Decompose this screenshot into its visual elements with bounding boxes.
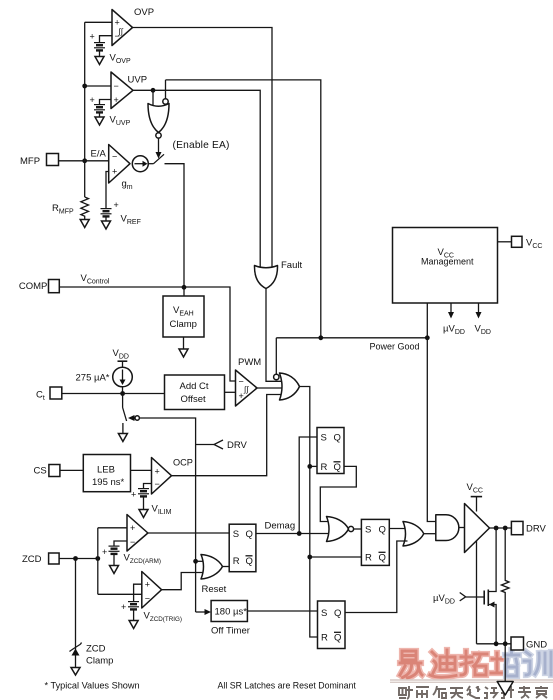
svg-text:+: + (239, 391, 244, 401)
svg-text:+: + (114, 95, 119, 105)
ground arrow below Ct switch (118, 434, 127, 442)
wire: bus to TRIG minus input (98, 593, 142, 595)
svg-text:UVP: UVP (128, 75, 148, 86)
wire: Vcontrol line from COMP to PWM minus input (59, 287, 235, 381)
svg-text:R: R (321, 462, 328, 473)
svg-text:(Enable EA): (Enable EA) (173, 140, 230, 151)
glyph pin (416, 687, 429, 698)
wire: bus to ARM plus input (98, 527, 127, 529)
wire: CS to LEB (60, 469, 83, 471)
svg-text:Fault: Fault (281, 260, 302, 271)
wire: after switch to COMP junction (165, 164, 185, 288)
glyph she (399, 686, 413, 699)
driver buffer triangle (465, 504, 490, 553)
glyph she2 (484, 687, 497, 698)
switch blade: enable EA switch (154, 154, 165, 163)
wire: MFP pin to E/A minus input (59, 160, 109, 162)
resistor RMFP (81, 197, 89, 220)
wire: Fault gate output down to PWM OR gate (266, 289, 284, 382)
node: driver output to mosfet drain (494, 526, 499, 531)
ZCD clamp symbol: up arrow (72, 649, 80, 656)
svg-text:+: + (112, 167, 117, 177)
wire: ZCD pin line (59, 558, 98, 560)
block: VEAH Clamp (163, 296, 204, 337)
svg-text:−: − (114, 81, 119, 91)
node: R input latch1 (307, 464, 312, 469)
glyph tian (450, 688, 463, 698)
ground arrow below VILIM (139, 510, 148, 518)
gate: AND2 driver gate (436, 515, 459, 541)
battery VZCD(ARM) (109, 546, 120, 554)
wire: DRV bus into Reset OR upper input (196, 560, 206, 562)
ZCD clamp: wire down from ZCD node (75, 559, 77, 670)
wire: stub to VEAH clamp (183, 287, 185, 296)
svg-text:PWM: PWM (238, 357, 261, 368)
wire: Reset OR output to latch2 R (223, 566, 230, 568)
wire: UVP output to right then down to Fault gate (133, 90, 260, 268)
svg-text:Management: Management (421, 257, 474, 267)
wire: OVP plus input (85, 21, 112, 23)
wire: OVP output to right then down to Fault gate (133, 28, 273, 269)
wire: Off Timer output to latch4 S (247, 610, 317, 612)
wire: Demag Q output to OR gate (256, 533, 331, 535)
current source: E/A output (132, 156, 148, 172)
svg-text:S: S (321, 608, 327, 619)
watermark rule band (390, 679, 553, 683)
node: rail to VCC management / AND gate line (425, 335, 430, 340)
arrow: uVDD output of VCC management (450, 303, 452, 313)
wire: VILIM to ground (143, 496, 145, 509)
wire: ARM output to latch2 S (148, 532, 229, 534)
ground arrow below ZCD clamp (71, 668, 80, 676)
wire: UVP output down into enable NOR gate (152, 90, 154, 105)
bubble: enable gate inverted input (163, 99, 168, 104)
wire: mosfet drain (488, 528, 496, 592)
svg-text:Reset: Reset (202, 584, 227, 595)
svg-text:OVP: OVP (134, 7, 154, 18)
DRV pin (511, 521, 523, 534)
arrowhead: into Off Timer (205, 609, 212, 615)
svg-text:+: + (90, 32, 95, 42)
ground arrow below VUVP (95, 117, 104, 125)
op-amp UVP comparator (111, 72, 133, 109)
block: VCC Management (393, 228, 498, 304)
gate: OR4 (403, 522, 424, 547)
svg-text:All SR Latches are Reset Domin: All SR Latches are Reset Dominant (218, 681, 357, 691)
svg-text:Demag: Demag (265, 521, 296, 532)
svg-text:Q: Q (379, 553, 386, 564)
GND pin (511, 637, 524, 650)
svg-text:−: − (130, 537, 135, 547)
svg-text:S: S (365, 525, 371, 536)
svg-text:Q: Q (334, 433, 341, 444)
svg-text:R: R (233, 556, 240, 567)
svg-text:+: + (131, 490, 136, 500)
battery VZCD(TRIG) (128, 602, 139, 610)
op-amp OVP comparator (112, 10, 133, 46)
wire: TRIG output to Reset OR lower input (162, 573, 206, 590)
node: mosfet source on GND rail (494, 641, 499, 646)
op-amp ZCD TRIG comparator (142, 572, 162, 609)
ground arrow below VZCD(ARM) (110, 566, 119, 574)
WATERMARK LAYER (390, 650, 553, 699)
svg-text:180 µs*: 180 µs* (215, 607, 248, 618)
earth ground symbol (497, 682, 513, 696)
bubble: enable gate output (156, 133, 161, 138)
wire: OVP minus to battery VOVP (100, 36, 113, 42)
wire: power good down to PWM OR bubble (275, 338, 277, 375)
wire: VREF to ground (105, 216, 107, 221)
wire: PWM output to OR gate (257, 387, 285, 389)
node: ZCD to clamp (73, 556, 78, 561)
svg-text:E/A: E/A (91, 149, 107, 160)
wire: battery to ground (133, 609, 135, 620)
latch: SR latch3 (361, 519, 389, 565)
wire: DRV tap (196, 444, 214, 446)
wire: latch1 Qbar feedback to Demag OR top input (320, 466, 356, 521)
svg-text:MFP: MFP (20, 156, 40, 167)
watermark glyph pei (491, 650, 519, 676)
svg-text:Q: Q (334, 633, 341, 644)
wire: power good rail (276, 337, 427, 339)
wire: driver ground leg down to GND rail (476, 541, 478, 644)
wire: TRIG plus to battery (134, 584, 142, 601)
battery VREF (101, 209, 112, 217)
op-amp ZCD ARM comparator (127, 515, 148, 552)
block: Add Ct Offset (165, 375, 225, 410)
ground arrow below VEAH clamp (179, 349, 188, 357)
gate: PWM combiner OR (280, 373, 300, 400)
VCC pin (512, 236, 523, 247)
connector: DRV signal tap (214, 440, 223, 449)
transistor: pull-down MOSFET (487, 590, 489, 607)
ZCD clamp symbol: slash (70, 643, 82, 652)
wire: battery VOVP to ground (99, 50, 101, 56)
svg-text:DRV: DRV (227, 440, 248, 451)
ground arrow below RMFP (80, 220, 89, 228)
ground arrow below VREF (102, 221, 111, 229)
svg-text:+: + (121, 602, 126, 612)
wire: mosfet source to GND rail (488, 605, 496, 644)
svg-text:+: + (114, 200, 119, 210)
glyph ji (501, 686, 514, 698)
node: R input latch3 (307, 555, 312, 560)
wire: driver output to DRV pin (490, 527, 512, 529)
watermark glyph tuo (461, 651, 487, 675)
latch: SR latch4 (off timer latch) (318, 601, 346, 649)
svg-text:Clamp: Clamp (86, 656, 113, 667)
wire: latch3 Q to OR4 top input (389, 528, 407, 530)
svg-text:S: S (233, 529, 239, 540)
wire: OR output right then down the R-bus (300, 387, 318, 638)
bubble: Demag OR output (348, 526, 353, 531)
node: ZCD to comparator bus (95, 556, 100, 561)
wire: battery to ground (113, 554, 115, 566)
wire: latch1 S input riser from Demag node (299, 437, 317, 534)
gate: Fault OR (pointing down) (254, 266, 277, 289)
svg-text:R: R (365, 553, 372, 564)
wire: GND rail to earth symbol (504, 644, 506, 682)
op-amp OCP comparator (152, 458, 172, 495)
battery VOVP (94, 43, 105, 51)
wire: DRV bus arrow into Off Timer (196, 611, 206, 613)
watermark glyph yi (400, 651, 422, 678)
svg-text:Off Timer: Off Timer (211, 626, 250, 637)
ground arrow below VOVP (95, 57, 104, 65)
svg-text:ZCD: ZCD (22, 554, 42, 565)
wire: UVP plus to battery VUVP (100, 100, 112, 105)
wire: tap to latch1 R (310, 465, 317, 467)
wire: UVP minus input (85, 85, 111, 87)
svg-text:+: + (130, 523, 135, 533)
wire: Demag OR output to latch3 S (354, 528, 362, 530)
battery VILIM (138, 489, 149, 497)
wire: E/A plus input to VREF (106, 172, 109, 209)
node: MFP pin junction (82, 158, 87, 163)
svg-text:Clamp: Clamp (170, 319, 197, 330)
watermark glyph xun (524, 652, 551, 675)
svg-text:195 ns*: 195 ns* (92, 477, 125, 488)
glyph jia (535, 686, 548, 698)
glyph zhuan (518, 686, 531, 698)
wire: Add Ct Offset output to PWM plus input (225, 391, 236, 393)
GND rail (477, 643, 512, 645)
svg-text:+: + (155, 467, 160, 477)
wire: battery VUVP to ground (99, 112, 101, 117)
wire: VCC management down to AND gate input (427, 303, 436, 522)
node: DRV bus to Reset OR (193, 559, 198, 564)
wire+switch: E/A output through enable switch to COMP node (148, 163, 153, 165)
wire: current source into Ct line (122, 387, 124, 394)
svg-text:+: + (102, 547, 107, 557)
wire: switch control line to DRV bus (139, 418, 195, 612)
wire: AND output to driver (459, 527, 465, 529)
svg-text:+: + (145, 580, 150, 590)
svg-text:Offset: Offset (181, 394, 207, 405)
latch: SR latch2 (Demag latch) (229, 524, 256, 572)
gate: Demag OR with output bubble (327, 517, 349, 542)
svg-text:Q: Q (334, 462, 341, 473)
svg-text:DRV: DRV (526, 524, 547, 535)
svg-text:OCP: OCP (173, 458, 193, 468)
node: Demag node to latch1 S riser (297, 531, 302, 536)
wire: enable gate output down to switch arrow (158, 138, 160, 152)
bubble: PWM OR inverted input (274, 374, 279, 379)
wire: tap to latch3 R (310, 556, 362, 558)
glyph he (433, 686, 446, 698)
wire: OCP minus to battery VILIM (144, 484, 152, 489)
svg-text:∫∫: ∫∫ (243, 385, 249, 394)
svg-text:−: − (155, 479, 160, 489)
watermark slogan row (399, 686, 548, 699)
svg-text:Q: Q (246, 529, 253, 540)
svg-text:ZCD: ZCD (86, 644, 106, 655)
node: UVP output to enable gate (151, 88, 156, 93)
battery VUVP (94, 105, 105, 113)
svg-text:* Typical Values Shown: * Typical Values Shown (45, 681, 140, 691)
node: Ct junction (120, 391, 125, 396)
svg-text:Q: Q (246, 556, 253, 567)
bubble: switch control contact (135, 416, 139, 420)
wire: VCC box to VCC pin (498, 241, 512, 243)
svg-text:−: − (239, 377, 244, 387)
wire: VEAH clamp to ground arrow (183, 337, 185, 349)
svg-text:CS: CS (34, 466, 47, 477)
svg-text:GND: GND (526, 640, 547, 651)
svg-text:LEB: LEB (97, 465, 115, 476)
wire: OCP output right then up into OR gate low input (172, 395, 284, 476)
gate: Reset OR (201, 555, 223, 580)
node: driver output to resistor (503, 526, 508, 531)
wire: latch4 Q up to OR4 bottom input (345, 541, 408, 613)
wire: Ct pin to Add Ct Offset block (62, 393, 165, 395)
arrow: VDD output of VCC management (478, 303, 480, 313)
svg-text:COMP: COMP (19, 281, 48, 292)
wire: power-good line to enable gate bubble input (166, 80, 321, 338)
resistor: DRV pulldown (501, 528, 509, 644)
svg-text:+: + (90, 95, 95, 105)
wire: ZCD comparator bus vertical (97, 528, 99, 595)
block: LEB 195ns (83, 455, 130, 492)
svg-text:∫∫: ∫∫ (118, 27, 124, 36)
wire: feedback bus from MFP up to OVP/UVP/EA inputs (84, 22, 86, 197)
arrowhead: switch control pointing left (128, 415, 135, 421)
wire: ARM minus to battery (114, 541, 127, 546)
node: rail to enable-EA riser (318, 335, 323, 340)
svg-text:Q: Q (379, 525, 386, 536)
wire: LEB to OCP plus input (131, 469, 152, 471)
block: 180us Off Timer (211, 601, 247, 622)
svg-text:−: − (112, 152, 117, 162)
svg-text:R: R (321, 633, 328, 644)
arrowhead: enable EA pointing at switch (156, 152, 162, 159)
switch: Ct discharge switch (122, 394, 124, 408)
node: resistor on GND rail (503, 641, 508, 646)
glyph xian (467, 686, 480, 698)
watermark glyph di (430, 650, 456, 677)
svg-text:Power Good: Power Good (370, 342, 420, 352)
latch: SR latch1 (PWM latch) (317, 428, 344, 474)
svg-text:−: − (145, 594, 150, 604)
gate: enable EA NOR (pointing down) (148, 104, 169, 133)
ground arrow below VZCD(TRIG) (129, 621, 138, 629)
svg-text:Add Ct: Add Ct (180, 381, 209, 392)
svg-text:S: S (321, 433, 327, 444)
node: COMP junction (182, 285, 187, 290)
svg-text:275 µA*: 275 µA* (76, 373, 110, 384)
wire: OR4 output to AND input (424, 533, 436, 535)
arrowhead: mosfet source arrow (489, 602, 495, 608)
svg-text:Q: Q (334, 608, 341, 619)
node: bus to UVP minus input (82, 84, 87, 89)
